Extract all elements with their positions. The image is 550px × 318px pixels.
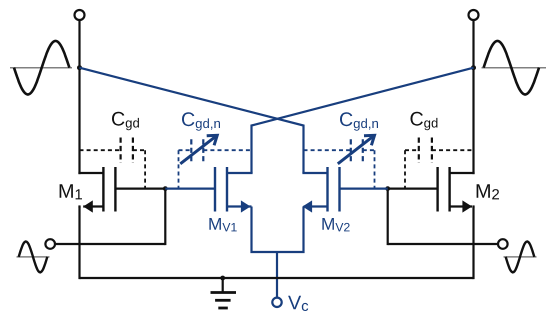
wire (cross-coupling: node B to MV1 drain) — [252, 68, 474, 173]
port P2 (top-right gate terminal) — [469, 10, 479, 20]
wire (M1 source down to tail rail) — [78, 207, 80, 280]
node E (ground junction on tail rail) — [220, 276, 225, 281]
wire (cross-coupling: node A to MV2 drain) — [80, 68, 304, 173]
sine wave annotation (top-left, trough-first) — [10, 41, 72, 95]
wire (MV1/MV2 common source U to Vc tail) — [252, 207, 304, 298]
label MV2 — [322, 218, 349, 231]
capacitor Cgd (left, gate-drain parasitic) — [80, 138, 146, 189]
wire (left gate rail, P1 down to M1 gate corner) — [78, 20, 80, 174]
transistor MV1 — [165, 167, 252, 213]
wire (node C down to bottom-left port wire) — [164, 189, 166, 246]
label Cgd (right) — [411, 112, 438, 130]
label MV1 — [209, 218, 236, 231]
label Cgd,n (right) — [340, 112, 378, 130]
wire (P4 to node D vertical) — [388, 243, 498, 245]
wire (M2 source down to tail rail) — [472, 207, 474, 280]
capacitor Cgd,n (left, variable neutralization, blue dashed) — [179, 135, 252, 188]
wire (bottom tail rail) — [80, 277, 474, 279]
label Cgd,n (left) — [182, 112, 220, 130]
wire (M2 drain to node D) — [388, 188, 438, 190]
capacitor Cgd (right, gate-drain parasitic) — [405, 138, 474, 189]
wire (P3 to node C vertical) — [55, 243, 165, 245]
port P3 (bottom-left drain terminal) — [45, 239, 55, 249]
node D (M2 drain / MV2 gate node) — [385, 186, 390, 191]
wire (M1 drain to node C) — [115, 188, 165, 190]
label Cgd (left) — [112, 112, 139, 130]
node A (top-left junction) — [77, 65, 82, 70]
port P5 (Vc control terminal) — [272, 298, 281, 307]
transistor M2 — [438, 167, 475, 213]
transistor MV2 — [302, 167, 387, 213]
port P4 (bottom-right drain terminal) — [498, 239, 508, 249]
transistor M1 — [78, 167, 115, 213]
wire (node D down to bottom-right port wire) — [387, 189, 389, 246]
ground — [211, 278, 237, 308]
label M1 — [60, 184, 82, 199]
sine wave annotation (top-right, peak-first) — [482, 41, 547, 95]
sine wave annotation (bottom-right, trough-first) — [504, 242, 537, 273]
node C (M1 drain / MV1 gate node) — [163, 186, 168, 191]
node B (top-right junction) — [471, 65, 476, 70]
label Vc — [288, 296, 308, 311]
wire (right gate rail, P2 down to M2 gate corner) — [472, 20, 474, 174]
capacitor Cgd,n (right, variable neutralization, blue dashed) — [304, 135, 375, 188]
port P1 (top-left gate terminal) — [75, 10, 85, 20]
label M2 — [477, 184, 499, 199]
sine wave annotation (bottom-left, peak-first) — [17, 242, 50, 273]
